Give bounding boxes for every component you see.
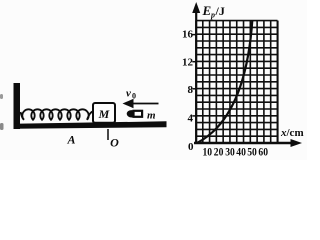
svg-text:v: v	[126, 88, 131, 100]
svg-text:10: 10	[203, 146, 213, 159]
svg-text:4: 4	[188, 113, 194, 125]
svg-text:0: 0	[132, 92, 136, 101]
svg-text:E: E	[202, 3, 212, 18]
svg-text:50: 50	[247, 146, 257, 159]
svg-text:p: p	[210, 11, 215, 20]
svg-text:16: 16	[182, 29, 194, 41]
svg-text:20: 20	[214, 146, 224, 159]
svg-text:0: 0	[188, 141, 194, 153]
svg-text:M: M	[98, 107, 110, 121]
svg-text:30: 30	[225, 146, 235, 159]
svg-text:O: O	[110, 136, 119, 150]
svg-text:m: m	[147, 110, 156, 122]
svg-text:/J: /J	[215, 4, 225, 18]
svg-text:40: 40	[236, 146, 246, 159]
svg-text:A: A	[66, 133, 75, 147]
svg-text:60: 60	[258, 146, 268, 159]
svg-text:12: 12	[182, 57, 194, 69]
svg-text:8: 8	[188, 84, 194, 96]
svg-text:/cm: /cm	[286, 127, 304, 139]
